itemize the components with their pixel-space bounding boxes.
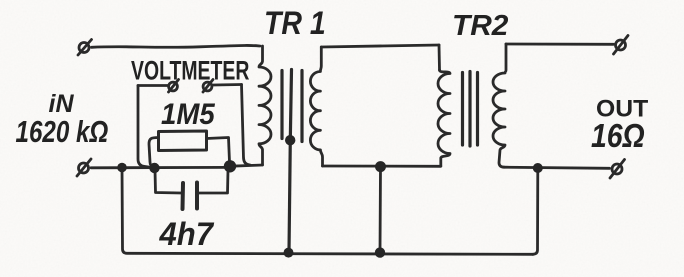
label 4h7 [159,216,215,253]
transformer TR1 core line 3 [300,71,303,142]
svg-text:TR 1: TR 1 [264,7,326,42]
label OUT [596,96,648,123]
wire: input bottom rail [91,166,230,169]
transformer TR1 core line 2 (grounded centre) [289,70,292,253]
junction dot: link centre tap [375,161,386,172]
wire: TR2 secondary bottom to output [504,167,610,168]
svg-text:1620 kΩ: 1620 kΩ [16,114,109,149]
junction dot: R1/C1 left node [149,163,159,173]
wire: TR1-TR2 link bottom [323,165,441,168]
voltmeter terminal V2 [203,80,213,93]
label TR 1 [264,7,326,42]
transformer TR1 core line 1 [280,71,283,139]
junction dot: R1/C1/TR1 right node [224,160,236,172]
input terminal J1 top [78,40,92,56]
label 1620 kΩ [16,114,109,149]
capacitor C1 left lead [155,170,181,193]
capacitor C1 right lead [199,170,228,193]
svg-text:4h7: 4h7 [159,216,215,253]
junction dot: output bottom node [533,163,543,173]
junction dot: ground rail at TR1 tap [284,248,294,258]
transformer TR2 core line 2 [468,72,471,147]
junction dot: TR1 core tap [285,135,295,145]
label TR2 [452,9,509,42]
wire: ground bottom rail [122,168,533,255]
svg-text:1M5: 1M5 [161,98,216,131]
svg-text:16Ω: 16Ω [591,117,645,155]
wire: input top rail [92,45,261,47]
wire: TR2 secondary top to output [506,43,614,46]
transformer TR2 secondary winding [493,44,506,167]
voltmeter terminal V1 [169,80,179,93]
voltmeter bracket right [242,85,251,166]
wire: TR2 primary top lead [438,45,441,70]
wire: link centre tap to ground rail [379,167,382,252]
transformer TR1 primary winding [259,46,271,165]
wire: TR1-TR2 link top [321,45,439,47]
resistor R1 right lead [207,138,230,163]
voltmeter bracket top-left [138,84,168,87]
voltmeter bracket left [138,86,152,168]
input terminal J2 bottom [77,159,91,176]
label 16Ω [591,117,645,155]
resistor R1 body [159,131,207,151]
transformer TR2 core line 1 [461,73,464,146]
capacitor C1 right plate [195,183,199,209]
label VOLTMETER [131,55,249,85]
label iN [49,90,75,118]
resistor R1 left lead [149,138,159,168]
svg-text:VOLTMETER: VOLTMETER [131,55,249,85]
transformer TR2 primary winding [438,70,450,166]
svg-text:TR2: TR2 [452,9,509,42]
transformer TR1 secondary winding [310,47,322,166]
voltmeter bracket top-right [214,83,242,86]
label 1M5 [161,98,216,131]
output terminal J3 top [614,36,629,55]
junction dot: input rail / ground drop [117,163,127,173]
wire: node to TR1 primary bottom [231,165,263,166]
wire: right drop to ground rail [533,168,538,254]
transformer TR2 core line 3 [476,73,479,146]
output terminal J4 bottom [610,160,625,179]
junction dot: ground rail at centre tap [375,247,385,257]
capacitor C1 left plate [181,183,186,209]
